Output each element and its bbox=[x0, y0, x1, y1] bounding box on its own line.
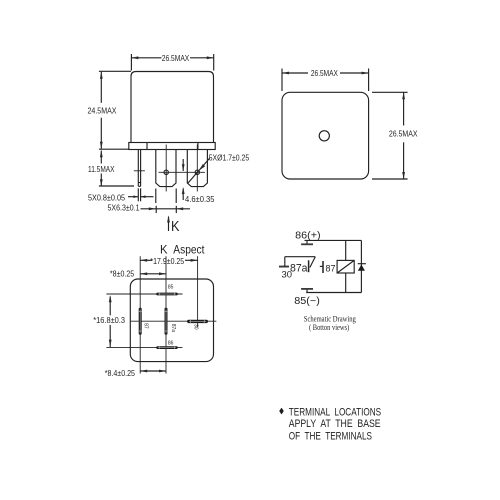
dim 4.6 arrows bbox=[182, 159, 185, 200]
schematic armature contact diagonal bbox=[310, 257, 315, 268]
centerline vertical pin2 bbox=[165, 145, 167, 192]
schematic coil diagonal bbox=[337, 260, 354, 273]
schematic terminal 85 bar bbox=[301, 288, 313, 290]
dim 16.8 K aspect bbox=[109, 295, 112, 347]
dim 11.5MAX left: dimension line bbox=[99, 150, 134, 186]
schematic contact 87 tick bbox=[320, 265, 323, 267]
terminal 87 blade bbox=[139, 308, 142, 335]
svg-text:87: 87 bbox=[326, 264, 336, 275]
K aspect crossline row center bbox=[130, 320, 216, 322]
schematic terminal 86 bar bbox=[301, 243, 313, 245]
svg-text:K: K bbox=[160, 242, 168, 256]
svg-text:K: K bbox=[171, 218, 180, 235]
svg-text:5X0.8±0.05: 5X0.8±0.05 bbox=[88, 192, 125, 202]
schematic contact 87a bar bbox=[308, 260, 310, 272]
centerline horizontal through holes bbox=[159, 171, 206, 173]
top view square bbox=[282, 92, 369, 179]
schematic diode triangle bbox=[358, 264, 365, 270]
svg-text:( Botton views): ( Botton views) bbox=[309, 323, 349, 332]
note asterisk bbox=[280, 408, 284, 413]
svg-text:*17.9±0.25: *17.9±0.25 bbox=[150, 256, 184, 266]
dim 26.5MAX top view vertical bbox=[372, 92, 408, 179]
K aspect outline bbox=[130, 279, 213, 362]
K aspect crossline col 87 bbox=[139, 256, 141, 373]
svg-text:85(−): 85(−) bbox=[294, 296, 320, 307]
svg-text:26.5MAX: 26.5MAX bbox=[311, 68, 338, 78]
dim 17.9 K aspect bbox=[140, 259, 197, 262]
terminal 85 blade bbox=[156, 293, 178, 296]
schematic wire top bbox=[305, 239, 362, 241]
centerline vertical pin3 bbox=[196, 145, 198, 192]
dim 26.5MAX front top: dimension line bbox=[131, 54, 213, 71]
schematic armature horizontal bbox=[285, 256, 316, 258]
pin 1 thin terminal bbox=[134, 150, 145, 187]
pin 3 hole bbox=[195, 170, 199, 174]
svg-text:85: 85 bbox=[168, 285, 174, 291]
svg-text:26.5MAX: 26.5MAX bbox=[389, 129, 418, 139]
svg-text:87a: 87a bbox=[290, 262, 308, 274]
terminal 86 blade bbox=[156, 346, 178, 349]
svg-text:*8.4±0.25: *8.4±0.25 bbox=[105, 368, 136, 378]
terminal 87a blade bbox=[165, 308, 168, 335]
K aspect crossline col center bbox=[165, 256, 167, 373]
svg-text:86(+): 86(+) bbox=[295, 231, 321, 242]
schematic coil box bbox=[337, 260, 354, 273]
svg-text:26.5MAX: 26.5MAX bbox=[162, 53, 190, 63]
dim 24.5MAX left: dimension line bbox=[99, 71, 131, 149]
schematic contact 87 bar bbox=[322, 261, 324, 273]
dim 26.5MAX top view horizontal bbox=[282, 69, 369, 92]
leader 5X dia1.7 bbox=[188, 158, 210, 183]
K aspect crossline col 30 bbox=[197, 256, 199, 327]
svg-text:4.6±0.35: 4.6±0.35 bbox=[185, 194, 215, 204]
svg-text:87: 87 bbox=[143, 323, 149, 329]
svg-text:86: 86 bbox=[168, 341, 174, 347]
schematic diode cathode bar bbox=[358, 263, 366, 265]
schematic coil wire vertical bbox=[345, 240, 347, 292]
svg-text:5X6.3±0.1: 5X6.3±0.1 bbox=[108, 203, 140, 213]
svg-text:87a: 87a bbox=[170, 324, 176, 333]
schematic armature riser bbox=[284, 257, 286, 267]
schematic terminal 86 stub bbox=[306, 240, 308, 244]
top view center hole bbox=[319, 131, 329, 141]
svg-text:APPLY AT THE BASE: APPLY AT THE BASE bbox=[289, 418, 381, 430]
svg-text:OF THE TERMINALS: OF THE TERMINALS bbox=[289, 431, 372, 443]
K direction arrow bbox=[167, 216, 170, 232]
dim 5X6.3 dimension line bbox=[141, 189, 191, 214]
svg-text:*16.8±0.3: *16.8±0.3 bbox=[93, 315, 125, 325]
dim 5X0.8 arrows bbox=[128, 188, 154, 201]
schematic diode wire vertical bbox=[360, 240, 362, 292]
pin 2 hole bbox=[164, 170, 168, 174]
svg-text:30: 30 bbox=[193, 324, 199, 330]
flange mold tick left bbox=[146, 143, 148, 150]
svg-text:TERMINAL LOCATIONS: TERMINAL LOCATIONS bbox=[289, 407, 381, 419]
relay front view body bbox=[131, 72, 214, 143]
K aspect crossline row 85 bbox=[106, 293, 182, 295]
svg-text:24.5MAX: 24.5MAX bbox=[88, 106, 117, 116]
svg-text:*8±0.25: *8±0.25 bbox=[110, 268, 135, 278]
flange mold tick right bbox=[197, 143, 199, 150]
relay front view base flange bbox=[129, 143, 215, 150]
schematic wire bottom bbox=[306, 292, 361, 294]
svg-text:5XØ1.7±0.25: 5XØ1.7±0.25 bbox=[209, 152, 250, 162]
dim 8 K aspect bbox=[140, 272, 166, 275]
schematic terminal 30 bar bbox=[279, 266, 289, 268]
terminal 30 blade bbox=[187, 320, 208, 323]
svg-text:11.5MAX: 11.5MAX bbox=[88, 164, 115, 174]
pin 2 middle blade terminal bbox=[156, 150, 176, 187]
svg-text:Aspect: Aspect bbox=[173, 242, 205, 256]
pin 3 right blade terminal bbox=[187, 150, 207, 187]
schematic terminal 85 stub bbox=[306, 289, 308, 293]
dim 8.4 K aspect bbox=[140, 370, 166, 373]
K aspect crossline row 86 bbox=[106, 347, 182, 349]
